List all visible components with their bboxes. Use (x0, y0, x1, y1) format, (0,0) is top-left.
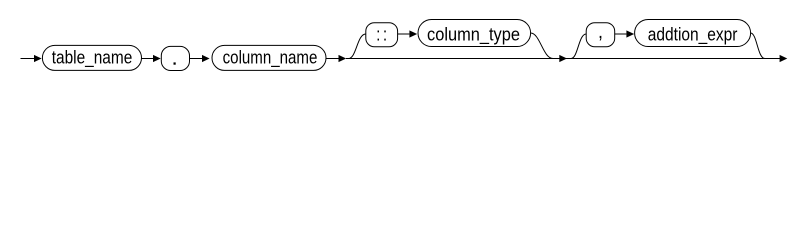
terminal box column_name (212, 45, 326, 70)
railroad syntax diagram (0, 0, 788, 81)
wire: column_name out (326, 58, 339, 60)
wire: branch up to comma (571, 34, 586, 59)
svg-text:column_type: column_type (427, 23, 520, 45)
terminal circle dot (161, 46, 189, 70)
svg-text:table_name: table_name (52, 46, 133, 68)
arrowhead into table_name (34, 55, 42, 62)
terminal box column_type (418, 20, 531, 47)
arrowhead into dot (153, 55, 161, 62)
arrowhead into column_name (202, 55, 210, 62)
wire: dot to column_name (190, 58, 203, 60)
terminal box table_name (42, 45, 141, 70)
svg-text:::: :: (376, 23, 389, 45)
arrowhead after column_name (339, 55, 347, 62)
wire: :: to column_type (398, 33, 410, 35)
wire: start line (21, 58, 35, 60)
arrowhead at end (780, 55, 788, 62)
terminal oval :: (366, 23, 398, 47)
arrowhead into column_type (409, 30, 417, 37)
arrowhead on main line after first branch (559, 55, 567, 62)
wire: table_name to dot (142, 58, 154, 60)
arrowhead into addtion_expr (626, 30, 634, 37)
wire: branch down from column_type (531, 33, 553, 59)
svg-text:column_name: column_name (223, 47, 318, 68)
svg-text:,: , (598, 21, 603, 43)
svg-text:addtion_expr: addtion_expr (648, 23, 738, 45)
wire: branch down from addtion_expr (751, 33, 765, 59)
wire: branch up to :: (349, 34, 366, 59)
wire: main bypass line (346, 58, 780, 60)
wire: comma to addtion_expr (615, 33, 627, 35)
terminal oval comma (586, 21, 615, 47)
terminal box addtion_expr (635, 20, 751, 47)
